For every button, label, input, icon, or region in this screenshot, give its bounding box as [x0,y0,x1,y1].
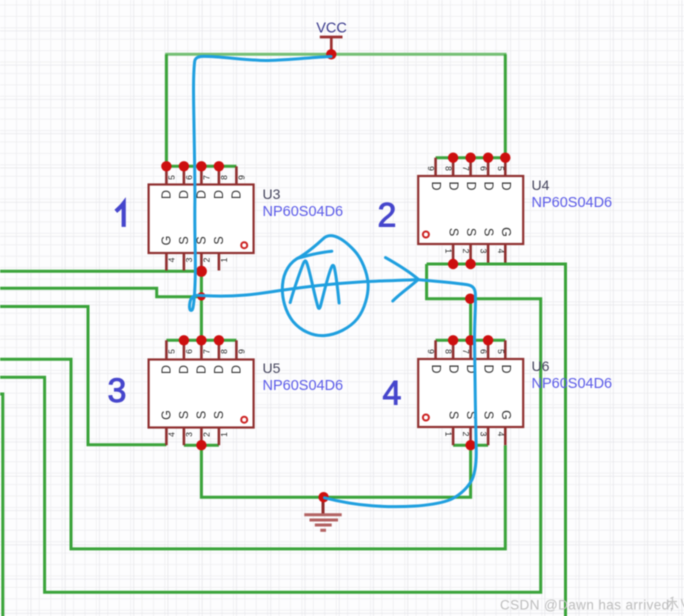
svg-text:7: 7 [201,175,211,180]
svg-text:5: 5 [496,166,506,171]
svg-text:8: 8 [219,349,229,354]
svg-text:6: 6 [184,175,194,180]
svg-text:4: 4 [383,375,402,413]
svg-text:D: D [159,365,173,374]
svg-text:D: D [499,364,513,373]
svg-text:3: 3 [479,432,489,437]
svg-text:U6: U6 [532,358,550,374]
svg-text:NP60S04D6: NP60S04D6 [263,204,344,220]
svg-text:5: 5 [166,175,176,180]
svg-text:D: D [482,364,496,373]
svg-text:8: 8 [444,166,454,171]
svg-text:G: G [499,227,513,237]
svg-text:NP60S04D6: NP60S04D6 [263,378,344,394]
svg-text:S: S [212,411,226,419]
svg-text:D: D [194,190,208,199]
svg-text:D: D [177,365,191,374]
svg-text:S: S [464,228,478,236]
svg-text:D: D [177,190,191,199]
svg-text:3: 3 [184,432,194,437]
svg-text:D: D [229,365,243,374]
svg-text:4: 4 [166,432,176,437]
svg-text:1: 1 [444,432,454,437]
svg-text:5: 5 [496,349,506,354]
svg-text:D: D [482,181,496,190]
svg-text:2: 2 [201,432,211,437]
svg-text:9: 9 [426,349,436,354]
svg-text:7: 7 [461,349,471,354]
svg-text:G: G [499,410,513,420]
svg-text:6: 6 [479,166,489,171]
svg-text:U5: U5 [263,360,281,376]
svg-text:D: D [429,364,443,373]
svg-text:1: 1 [444,249,454,254]
svg-text:D: D [212,190,226,199]
svg-text:S: S [447,228,461,236]
svg-text:S: S [194,411,208,419]
svg-text:9: 9 [236,175,246,180]
svg-text:D: D [447,364,461,373]
svg-text:NP60S04D6: NP60S04D6 [532,376,613,392]
svg-text:3: 3 [184,257,194,262]
svg-text:D: D [194,365,208,374]
svg-text:2: 2 [461,432,471,437]
svg-text:9: 9 [236,349,246,354]
svg-text:1: 1 [219,432,229,437]
svg-text:2: 2 [461,249,471,254]
svg-text:NP60S04D6: NP60S04D6 [532,195,613,211]
svg-text:D: D [212,365,226,374]
svg-text:6: 6 [479,349,489,354]
svg-text:4: 4 [166,257,176,262]
svg-text:4: 4 [496,432,506,437]
svg-text:4: 4 [496,249,506,254]
svg-text:S: S [212,236,226,244]
svg-text:7: 7 [461,166,471,171]
svg-text:8: 8 [444,349,454,354]
svg-text:G: G [159,410,173,420]
svg-text:D: D [464,181,478,190]
svg-text:3: 3 [108,372,127,410]
svg-text:D: D [499,181,513,190]
svg-text:S: S [447,411,461,419]
svg-text:2: 2 [378,197,397,235]
svg-text:6: 6 [184,349,194,354]
svg-text:S: S [177,411,191,419]
svg-text:U4: U4 [532,177,550,193]
svg-text:7: 7 [201,349,211,354]
svg-text:2: 2 [201,257,211,262]
svg-text:D: D [447,181,461,190]
svg-text:VCC: VCC [316,21,347,37]
svg-text:9: 9 [426,166,436,171]
svg-text:5: 5 [166,349,176,354]
svg-text:D: D [229,190,243,199]
svg-text:D: D [429,181,443,190]
svg-text:U3: U3 [263,186,281,202]
svg-text:S: S [482,411,496,419]
svg-text:3: 3 [479,249,489,254]
svg-text:CSDN @Dawn has arrived,: CSDN @Dawn has arrived, [500,598,674,613]
svg-text:G: G [159,236,173,246]
svg-text:8: 8 [219,175,229,180]
svg-text:D: D [159,190,173,199]
svg-text:S: S [177,236,191,244]
svg-text:S: S [482,228,496,236]
svg-text:1: 1 [219,257,229,262]
